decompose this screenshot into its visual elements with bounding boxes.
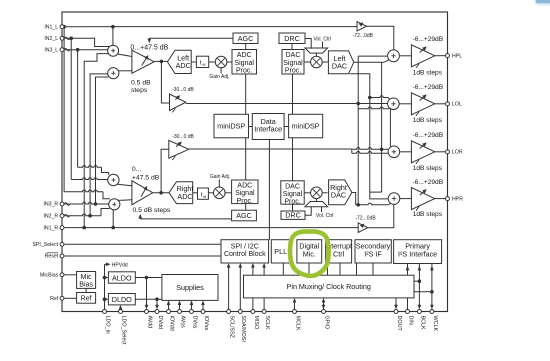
wire ALDO to supplies [135,277,162,279]
svg-text:Proc.: Proc. [237,198,253,205]
wire ADC SP to AGC right [245,204,247,211]
svg-text:ADC: ADC [237,52,252,59]
pin MISO [251,310,255,314]
svg-text:DOUT: DOUT [396,316,402,332]
svg-text:-6...+29dB: -6...+29dB [413,36,444,43]
decimation filter block tM [196,56,208,67]
svg-text:-72...0dB: -72...0dB [355,216,376,222]
wire Right ADC to filter [193,192,198,194]
wire -30dB amp to LOL mixer (long) [186,103,388,105]
Left ADC converter [168,50,192,73]
wire Left DAC to HPL mixer [354,60,390,63]
pin IOVdd [167,310,171,314]
svg-text:WCLK: WCLK [432,316,438,332]
wire MicBias pin to block [62,274,77,276]
wire AGC feedback to PGA-L [149,37,233,39]
svg-text:MISO: MISO [253,316,259,330]
Ref block [77,293,96,304]
pin LOR [446,150,450,154]
svg-text:-6...+29dB: -6...+29dB [413,84,444,91]
wire AGC feedback to PGA-R [140,218,231,220]
svg-text:Signal: Signal [283,191,303,198]
svg-text:HPR: HPR [452,196,463,202]
svg-text:+47.5 dB: +47.5 dB [132,175,160,182]
gain multiplier right ADC [214,187,226,199]
vertical miniDSP to ADC SP right [245,138,247,180]
Right ADC converter [169,182,193,204]
volume multiplier left DAC [311,56,323,68]
pin AVdd [145,310,149,314]
DAC Signal Proc block right [281,181,304,204]
Digital Mic block [297,240,322,263]
svg-text:AGC: AGC [238,34,254,43]
wire V4 LOL to LOR [389,109,391,148]
svg-text:ADC: ADC [177,192,192,201]
svg-text:IN1_L: IN1_L [44,24,58,30]
decimation filter block tM right [198,188,209,199]
pin DOUT [394,310,398,314]
wire DAC SP to vol multiplier [304,61,311,63]
svg-text:ADC: ADC [176,61,191,70]
pin DIN [406,310,410,314]
svg-text:IN2_L: IN2_L [44,36,58,42]
wire IN1_R rise to right sum node [112,210,114,228]
wire filter to gain multiplier [209,61,216,63]
svg-text:steps: steps [131,87,148,94]
svg-text:DRC: DRC [285,211,301,220]
wire vol multiplier to Left DAC [322,61,328,63]
svg-text:Interface: Interface [254,125,282,134]
wire bus v5 IN2_R up to left sum 2 [90,74,108,216]
vertical DAC SP to miniDSP2 [292,74,294,114]
svg-text:SCL/SSZ: SCL/SSZ [229,316,235,339]
wire DAC SP to vol multiplier right [304,192,310,194]
svg-text:Ref: Ref [81,295,92,302]
svg-text:Mic: Mic [81,274,92,281]
svg-text:Proc.: Proc. [236,68,252,75]
svg-text:IN2_R: IN2_R [43,213,58,219]
wire LDO_Select riser [120,307,122,312]
PGA right amplifier 0..+47.5dB [132,181,153,205]
wire sumA to PGA-R [118,184,132,186]
pin GPIO [322,310,326,314]
wire GPIO to pinmux [323,300,325,311]
connector Secondary left to pinmux [356,263,358,275]
wire IN1_L horizontal [62,26,357,28]
squiggle IN3_L [64,48,70,51]
svg-text:PLL: PLL [274,247,287,256]
svg-text:M: M [203,195,206,199]
pin LDO_in [103,310,107,314]
svg-text:DVss: DVss [191,316,197,329]
wire AVdd drop [146,278,148,308]
svg-text:miniDSP: miniDSP [217,122,245,131]
svg-text:BCLK: BCLK [419,316,425,330]
junction Left DAC aux [368,96,372,100]
svg-text:-6...+29dB: -6...+29dB [413,179,444,186]
HPVdd tap [105,263,108,265]
svg-text:Pin Muxing/ Clock Routing: Pin Muxing/ Clock Routing [287,282,371,291]
vol ctrl label stem [322,42,324,49]
pin Ref [60,296,64,300]
wire SCLK upper [263,266,265,276]
wire MCLK to pinmux [294,300,296,311]
pin IN1_L [60,25,64,29]
miniDSP block 2 [289,114,323,138]
attenuator -30dB right [169,140,189,158]
svg-text:GPIO: GPIO [323,316,329,329]
junction IN1_R bus [82,226,86,230]
pin LOL [446,102,450,106]
wire HPL bypass from V1 [358,55,387,57]
vol ctrl label stem right [321,207,323,213]
wire DAC SP to DRC right [292,204,294,211]
wire V1 vertical [357,56,359,205]
svg-text:LOL: LOL [452,102,462,108]
wire gain adj stem right [218,180,220,188]
svg-text:0...+47.5 dB: 0...+47.5 dB [130,44,168,51]
junction V3 on LOR line [380,148,384,152]
wire -30dB right to LOR mixer (long) [189,148,352,150]
pin IN2_R [60,214,64,218]
connector Interrupt to pinmux [339,263,341,275]
wire bus v4 IN1_R up to left sum 1 [84,54,108,228]
wire bus v2 IN2_L down to right sum A [70,38,72,179]
wire HPL mixer to amp [399,55,411,57]
DLDO block [108,294,135,305]
wire gain adj stem [220,68,222,74]
AGC block left [233,33,258,44]
svg-text:MicBias: MicBias [40,273,59,279]
wire IOVss to supplies [202,303,204,312]
svg-text:MCLK: MCLK [294,316,300,331]
wire Reset [62,255,221,257]
svg-text:I²S IF: I²S IF [364,249,382,258]
junction IN3_R bus [94,202,98,206]
wire DIN upper [407,264,409,276]
svg-text:0.5 dB steps: 0.5 dB steps [133,207,171,214]
junction V1 bottom [356,203,360,207]
SPI/I2C Control Block [221,240,269,263]
svg-text:ALDO: ALDO [112,273,132,282]
svg-text:Signal: Signal [235,190,255,197]
wire aux to LOL mixer [370,96,388,98]
svg-text:Bias: Bias [79,282,93,289]
pin DVdd [155,310,159,314]
ALDO block [108,272,135,283]
svg-text:DAC: DAC [331,191,346,200]
junction IN3_L bus [76,48,80,52]
Mic Bias block [77,272,96,289]
svg-text:Control Block: Control Block [224,251,266,258]
AGC block right [232,210,257,221]
wire DIN lower [407,298,409,312]
pin IN3_R [60,202,64,206]
svg-text:1dB steps: 1dB steps [413,165,443,172]
wire sum2 to PGA-L [118,70,132,72]
HPL driver amplifier [411,45,434,67]
svg-text:SCLK: SCLK [264,316,270,330]
wire V1 lower jog to LOL mixer [358,107,389,109]
connector Interrupt left to pinmux [327,263,329,275]
svg-text:LDO_Select: LDO_Select [120,316,126,346]
squiggle IN2_R [64,214,70,217]
svg-text:AVdd: AVdd [146,316,152,329]
wire IN3_L horizontal [62,49,108,51]
DRC block right [281,211,305,219]
LOR driver amplifier [411,141,434,163]
svg-text:Vol. Ctrl: Vol. Ctrl [314,37,332,43]
svg-text:Reset: Reset [45,254,59,260]
wire DRC to vol ctrl right [305,207,311,215]
wire sumB to PGA-R [118,199,132,202]
wire WCLK [431,264,433,308]
wire bus v3 IN3_L down to right sum A [77,50,79,168]
wire MicBias to Ref [85,288,87,292]
junction PGA-R output [159,191,163,195]
summing node right PGA minus [109,199,120,210]
svg-text:SPI_Select: SPI_Select [33,242,59,248]
svg-text:DAC: DAC [286,52,301,59]
svg-text:HPVdd: HPVdd [112,262,128,268]
svg-text:IOVss: IOVss [203,316,209,331]
wire HPL amp to pin [435,55,448,57]
wire LDO_in riser [104,264,106,311]
wire DOUT from pinmux [395,298,397,308]
svg-text:Gain Adj.: Gain Adj. [210,174,230,180]
pin MCLK [293,310,297,314]
connector Secondary to pinmux [372,263,374,275]
wire -72dB to HPL mixer [367,26,394,50]
highlight ellipse around Digital Mic [290,231,329,275]
wire LOR upper entry [352,148,388,150]
squiggle IN3_R [64,203,70,206]
pin AVss [178,310,182,314]
svg-text:IN3_L: IN3_L [44,47,58,53]
PLL block [271,240,290,263]
svg-text:Proc.: Proc. [285,68,301,75]
svg-text:I²S Interface: I²S Interface [398,249,437,258]
svg-text:LOR: LOR [452,150,463,156]
junction LDO_in to ALDO [103,276,107,280]
svg-text:1dB steps: 1dB steps [413,70,443,77]
svg-text:HPL: HPL [452,53,462,59]
summing node left PGA minus [108,68,119,79]
Primary I2S Interface block [394,240,442,264]
wire IOVdd to supplies [168,303,170,312]
wire MISO lower [252,298,254,312]
wire crossfeed vertical V3 [381,62,383,192]
mixer LOL [388,98,400,110]
svg-text:Gain Adj.: Gain Adj. [209,74,229,80]
PGA left amplifier 0..+47.5dB [132,50,154,73]
svg-text:IN3_R: IN3_R [43,202,58,208]
chip outline [62,12,448,312]
pin LDO_Select [119,310,123,314]
svg-text:1dB steps: 1dB steps [413,117,443,124]
junction IN1_L drop [111,25,115,29]
wire DVss to supplies [191,303,193,312]
wire multiplier to ADC SP right [225,192,232,194]
wire AGC to ADC signal proc [245,44,247,50]
wire AVss to supplies [179,303,181,312]
wire DVdd drop [156,299,158,307]
ADC Signal Proc block left [232,50,257,75]
junction BCLK pinmux [418,279,422,283]
svg-text:Supplies: Supplies [176,283,204,292]
wire SCLK lower [263,298,265,312]
gain multiplier left ADC [215,56,227,68]
pin DVss [190,310,194,314]
svg-text:SPI / I2C: SPI / I2C [231,243,259,250]
wire DLDO to supplies [135,298,162,300]
pin MicBias [60,273,64,277]
junction IN1_L bus [62,25,66,29]
summing node right PGA plus [108,174,119,185]
svg-text:IN1_R: IN1_R [43,225,58,231]
wire V3 elbow to V2 [370,191,382,193]
pin WCLK [430,310,434,314]
wire PGA-R output up to -30dB amp [161,149,170,193]
wire miniDSP1 to data interface [249,126,253,128]
junction PGA-L output [160,60,164,64]
connector DigitalMic to pinmux [308,263,310,275]
Right DAC converter [329,180,352,205]
wire bus v1 IN1_L down to right sum B [63,27,65,192]
Supplies block [162,275,218,301]
junction DVdd [155,297,159,301]
pin SDA/MOSI [238,310,242,314]
Left DAC converter [328,51,353,74]
pin BCLK [417,310,421,314]
wire -72dB bottom to HPR mixer [368,204,394,227]
wire DRC to vol ctrl [305,39,311,49]
wire Ref pin to block [62,297,77,299]
svg-text:M: M [203,63,206,67]
Interrupt Ctrl block [326,240,352,263]
wire LOR amp to pin [435,151,448,153]
wire PGA-R to Right ADC [153,192,169,194]
wire LOL amp to pin [435,103,448,105]
pin SCLK [262,310,266,314]
svg-text:Ctrl: Ctrl [333,249,345,258]
svg-text:DLDO: DLDO [112,295,132,304]
pin IN2_L [60,36,64,40]
svg-text:-6...+29dB: -6...+29dB [413,132,444,139]
junction LDO_in to DLDO [103,297,107,301]
wire BCLK [418,264,420,308]
wire IN1_R horizontal [62,227,358,229]
svg-text:Signal: Signal [234,60,254,67]
wire IN3_R horizontal [62,202,109,204]
svg-text:SDA/MOSI: SDA/MOSI [240,316,246,342]
pin IOVss [201,310,205,314]
miniDSP block 1 [214,114,249,138]
svg-text:AVss: AVss [179,316,185,328]
LOL driver amplifier [411,93,434,115]
DAC Signal Proc block left [282,50,304,75]
wire data interface to miniDSP2 [284,126,289,128]
svg-text:0...: 0... [132,166,142,173]
wire Left ADC to decimation filter [191,61,196,63]
squiggle IN2_L [64,37,70,40]
wire PGA-L to Left ADC [154,60,167,62]
svg-text:0.5 dB: 0.5 dB [131,79,151,86]
wire V2 down to HPR mixer [370,98,388,199]
svg-text:IOVdd: IOVdd [168,316,174,331]
pin SPI_Select [60,242,64,246]
svg-text:DAC: DAC [332,62,347,71]
mixer LOR [388,146,400,158]
pin SCL/SSZ [227,310,231,314]
svg-text:DAC: DAC [285,183,300,190]
svg-text:Signal: Signal [283,60,303,67]
volume control ramp left [305,48,328,53]
svg-text:Vol. Ctrl: Vol. Ctrl [316,213,334,219]
pin HPL [446,54,450,58]
wire SPI_Select [62,243,221,245]
wire LOR mixer to amp [400,151,412,153]
attenuator -72dB bottom [358,223,368,233]
blue ui fragment top right [536,0,550,3]
pin IN1_R [60,226,64,230]
vertical ADC SP to miniDSP [245,74,247,114]
Pin Muxing / Clock Routing block [244,275,415,298]
mixer HPR [388,193,400,205]
svg-text:ADC: ADC [237,183,252,190]
svg-text:1dB steps: 1dB steps [413,211,443,218]
wire multiplier to ADC signal proc [227,61,232,63]
pin IN3_L [60,48,64,52]
junction DAC bypass vertical [356,102,360,106]
pin RESET [60,254,64,258]
connector PLL to pinmux [282,263,284,275]
svg-text:-72...0dB: -72...0dB [353,33,374,39]
wire Right DAC to HPR mixer [352,193,356,205]
wire IN1_L drop to left sum node [112,27,114,46]
wire sum1 to PGA-L [118,54,132,57]
wire IN2_L horizontal [62,38,110,46]
wire vol multiplier to Right DAC [322,192,327,194]
svg-text:Mic.: Mic. [303,249,316,258]
svg-text:LDO_in: LDO_in [104,316,110,334]
mixer HPL [388,50,400,62]
svg-text:-30...0 dB: -30...0 dB [172,87,194,93]
svg-text:DVdd: DVdd [157,316,163,330]
svg-text:miniDSP: miniDSP [292,122,320,131]
junction IN2_R bus [88,214,92,218]
wire LOL mixer to amp [399,103,411,105]
junction AVdd [145,276,149,280]
DRC block left [279,33,305,44]
svg-text:DRC: DRC [284,34,300,43]
Data Interface block [252,114,284,140]
attenuator -30dB left [170,94,186,111]
Secondary I2S IF block [355,240,391,263]
svg-text:Ref: Ref [50,296,59,302]
wire MISO upper [252,266,254,276]
attenuator -72dB top [357,22,367,32]
svg-text:DIN: DIN [407,316,413,325]
wire HPR amp to pin [435,198,448,200]
wire PGA-L output down to -30dB amp [161,61,170,103]
vertical miniDSP2 to DAC SP right [292,138,294,181]
volume multiplier right DAC [311,187,323,199]
vertical Data Interface down [268,140,270,241]
junction IN2_L bus [69,37,73,41]
HPR driver amplifier [411,188,434,210]
wire filter to multiplier right [208,192,213,194]
